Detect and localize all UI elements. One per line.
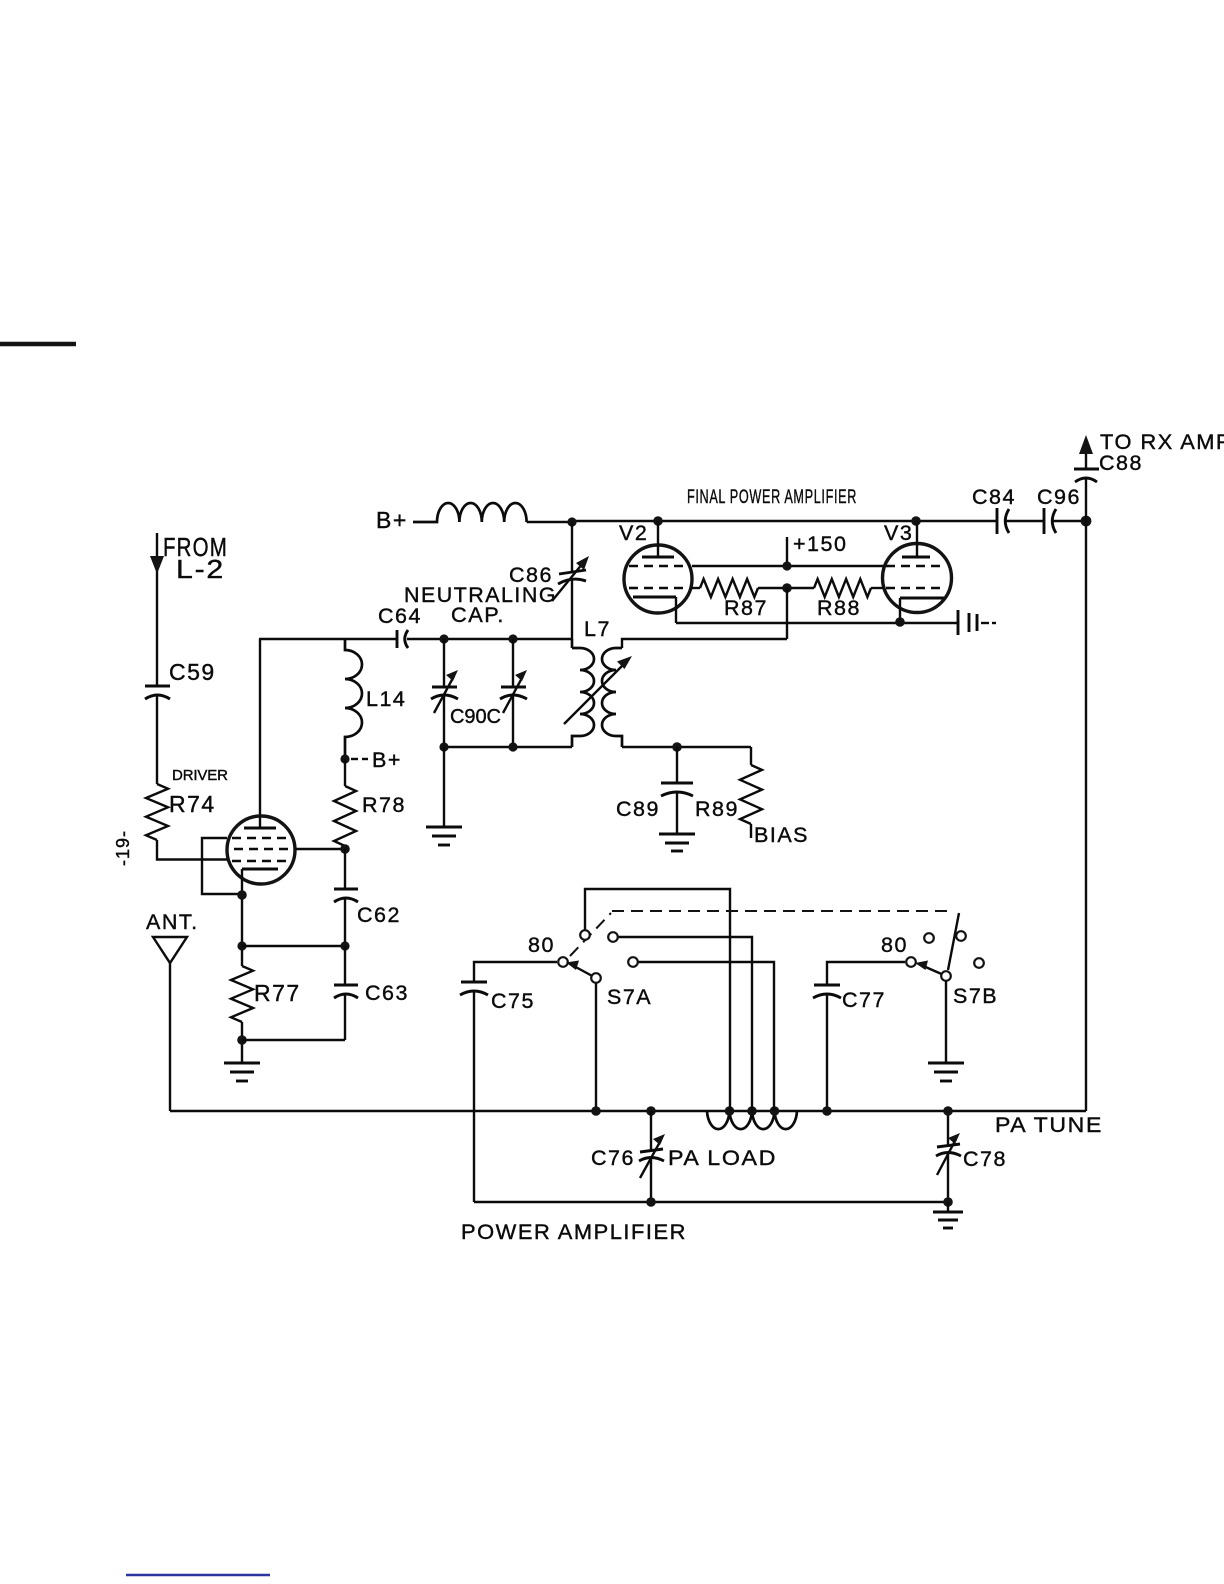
wire: gang linkage (dashed) [570,911,959,970]
wire: driver grid return box [202,838,240,894]
inductor PA tank coil [707,1111,797,1129]
margin mark [0,342,76,347]
capacitor cathode bypass [958,610,996,635]
ground (under S7B) [928,1063,964,1081]
capacitor C75 [460,962,557,1202]
svg-text:V3: V3 [884,521,913,545]
wire: R77 to C63 bottom [242,1039,345,1041]
tube V2 [619,521,692,613]
node C89 junction [672,742,682,752]
wire: C90C ground drop [443,747,445,826]
svg-text:S7B: S7B [953,984,998,1008]
wire: cathode rail [676,622,957,624]
wire: R87 to R88 [758,587,814,589]
wire: V2 grid lead [690,587,700,589]
wire: R74 to driver grid [157,840,228,860]
wire: S7A wiper to bus [595,983,597,1111]
svg-text:B+: B+ [372,748,402,772]
wire: R88 to V3 grid [871,587,884,589]
wire: cathode to C62/C63 junction [242,945,345,947]
svg-text:C88: C88 [1099,451,1143,475]
node cathode/box junction [237,890,247,900]
transformer L7 [564,617,632,747]
svg-text:C89: C89 [616,797,660,821]
node C96/C88/PA-tune junction [1081,516,1092,527]
antenna ANT [146,910,199,1111]
wire: PA tune bus [170,1110,1086,1112]
node C78 bottom junction [943,1197,953,1207]
ground (under R77) [224,1063,260,1081]
node C76 bottom junction [646,1197,656,1207]
capacitor C90C (right section) [450,639,527,747]
node C76 bus junction [646,1106,656,1116]
capacitor C62 [334,849,401,946]
svg-text:R89: R89 [695,797,739,821]
node R77/C63 bottom junction [237,1035,247,1045]
capacitor C59 [145,659,216,784]
svg-text:L7: L7 [584,617,611,641]
wire: L7 right top to grid line [622,639,787,648]
node TO RX AMP (arrow) [1079,430,1224,454]
node L14/R78 B+ tap [340,748,402,772]
tube V3 [883,521,952,613]
wire: bottom return line [474,1201,948,1203]
wire: L7 left top [571,639,573,648]
wire: C78 ground stub [947,1202,949,1211]
wire: tank bottom left [444,746,572,748]
svg-text:-19-: -19- [113,830,133,866]
resistor R78 [334,759,406,849]
svg-text:POWER AMPLIFIER: POWER AMPLIFIER [461,1220,687,1244]
inductor B+ choke [413,503,527,522]
wire: tank bottom right [622,746,751,748]
ground (under C78) [933,1212,963,1228]
node C62/C63 junction [340,941,349,950]
svg-text:80: 80 [528,933,555,957]
node FROM L-2 input [150,532,228,685]
wire: V3 cathode drop [899,598,901,622]
svg-text:L14: L14 [366,687,406,711]
svg-text:B+: B+ [376,507,408,533]
wire: grid junction down to L7 [786,588,788,639]
node B+/C86 junction [567,517,576,526]
svg-text:C76: C76 [591,1146,635,1170]
node V3 plate junction [911,516,921,526]
resistor R89 [695,747,809,847]
wire: right vertical to PA tune bus [1085,521,1087,1111]
node coil tap 2 [747,1106,757,1116]
svg-text:PA TUNE: PA TUNE [995,1113,1103,1137]
ground (under C90C) [426,827,462,845]
inductor L14 [345,639,406,759]
node coil tap 1 [725,1106,735,1116]
node C90C right bottom [508,742,517,751]
resistor R87 [700,579,768,620]
svg-text:BIAS: BIAS [754,823,809,847]
wire: driver cathode drop [241,869,243,966]
capacitor C90C (left section) [431,639,458,747]
wire: S7A contact3 link [638,962,774,1111]
capacitor C77 [813,962,905,1111]
node +150 tap [782,532,847,571]
wire: driver plate line [259,638,572,640]
ground (under C89) [659,834,695,851]
switch S7A [528,930,652,1009]
wire: grid line down to driver plate [259,639,261,827]
svg-text:C75: C75 [491,989,535,1013]
capacitor C76 [591,1111,777,1203]
svg-text:+150: +150 [793,532,847,556]
svg-text:C64: C64 [378,604,422,628]
svg-text:PA LOAD: PA LOAD [668,1146,777,1170]
svg-text:C96: C96 [1037,485,1081,509]
resistor R77 [231,966,301,1062]
svg-text:R88: R88 [817,596,861,620]
node plate/R78/C62 junction [340,844,350,854]
capacitor C84 [972,485,1043,534]
capacitor C64 [378,604,422,648]
svg-text:R87: R87 [724,596,768,620]
wire: screen grid rail [692,565,884,567]
node R87/R88 junction [782,583,792,593]
svg-text:FINAL POWER AMPLIFIER: FINAL POWER AMPLIFIER [687,486,857,508]
svg-text:C59: C59 [169,659,216,685]
wire: S7B wiper to ground [945,981,947,1062]
node C90C left top [439,634,448,643]
node cathode/C62 wire junction [237,941,246,950]
svg-text:R74: R74 [169,791,216,817]
svg-text:CAP.: CAP. [451,603,505,627]
tube V1 driver [227,816,295,884]
svg-text:S7A: S7A [607,985,652,1009]
wire: S7A contact2 link [618,937,752,1111]
node coil tap 3 [770,1106,780,1116]
capacitor C86 (neutralizing) [404,522,589,648]
node V2 plate junction [653,516,663,526]
svg-text:R78: R78 [362,793,406,817]
node C90C right top [508,634,517,643]
node C77 bus junction [822,1106,832,1116]
resistor R74 [146,767,229,840]
resistor R88 [814,579,871,620]
svg-text:C78: C78 [963,1147,1007,1171]
node C90C left bottom [439,742,448,751]
svg-text:ANT.: ANT. [146,910,199,934]
svg-text:C84: C84 [972,485,1016,509]
node S7A wiper bus junction [591,1106,601,1116]
capacitor C88 [1074,450,1143,521]
capacitor C63 [334,946,409,1040]
wire: driver screen to R78/C62 junction [295,848,345,850]
svg-text:DRIVER: DRIVER [172,767,229,784]
svg-text:C63: C63 [365,981,409,1005]
svg-text:V2: V2 [619,521,648,545]
svg-text:80: 80 [881,933,908,957]
capacitor C78 [936,1111,1007,1203]
switch S7B [881,931,998,1008]
svg-text:L-2: L-2 [176,554,225,584]
svg-text:C90C: C90C [450,706,502,728]
svg-text:C77: C77 [842,988,886,1012]
node V3 cathode junction [895,617,905,627]
ink underline (blue) [126,1574,270,1577]
svg-text:C62: C62 [357,903,401,927]
node C78 bus junction [943,1106,953,1116]
svg-text:R77: R77 [254,980,301,1006]
capacitor C89 [616,747,693,833]
capacitor C96 [1037,485,1086,534]
wire: S7A contact1 riser and top link [585,889,730,1111]
wire: plate rail B+ [527,521,996,522]
wire: V2 cathode drop [675,597,677,623]
svg-text:TO RX AMP: TO RX AMP [1100,430,1224,454]
